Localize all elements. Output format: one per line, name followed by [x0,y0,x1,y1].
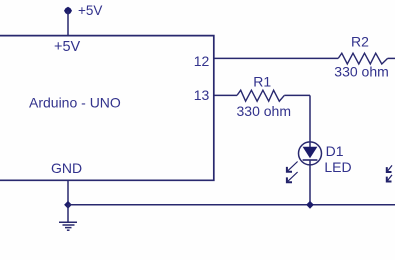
svg-text:+5V: +5V [54,39,81,55]
ground [59,222,77,230]
node junction at ground rail (left) [64,201,72,209]
wire pin 12 to R2 [214,57,338,59]
wire pin 13 to R1 [214,94,237,96]
svg-text:13: 13 [194,87,210,103]
wire R1 to corner [284,94,310,96]
svg-text:R2: R2 [351,33,369,49]
LED D2 light arrows (LED off right edge) [387,165,392,181]
svg-text:R1: R1 [253,73,271,89]
svg-text:Arduino - UNO: Arduino - UNO [29,95,121,111]
wire box GND down to junction [67,180,69,205]
wire LED cathode down to junction [309,160,311,205]
wire R2 to right edge [388,57,395,59]
Arduino UNO box [0,36,214,181]
resistor R1 [237,90,284,101]
svg-text:GND: GND [51,160,82,176]
wire corner down to LED [309,95,311,147]
wire ground rail [68,204,395,206]
svg-text:+5V: +5V [78,3,102,18]
svg-text:330 ohm: 330 ohm [237,103,291,119]
node +5V supply dot [64,7,72,15]
LED D1 light arrows [287,162,298,183]
svg-text:D1: D1 [326,143,344,159]
resistor R2 [338,53,387,64]
node junction at LED bottom [306,201,314,209]
wire junction to ground symbol [67,205,69,222]
svg-text:LED: LED [324,159,351,175]
wire +5V dot to box top [67,11,69,36]
svg-text:12: 12 [194,53,210,69]
svg-text:330 ohm: 330 ohm [334,64,388,80]
LED D1 [299,142,322,165]
